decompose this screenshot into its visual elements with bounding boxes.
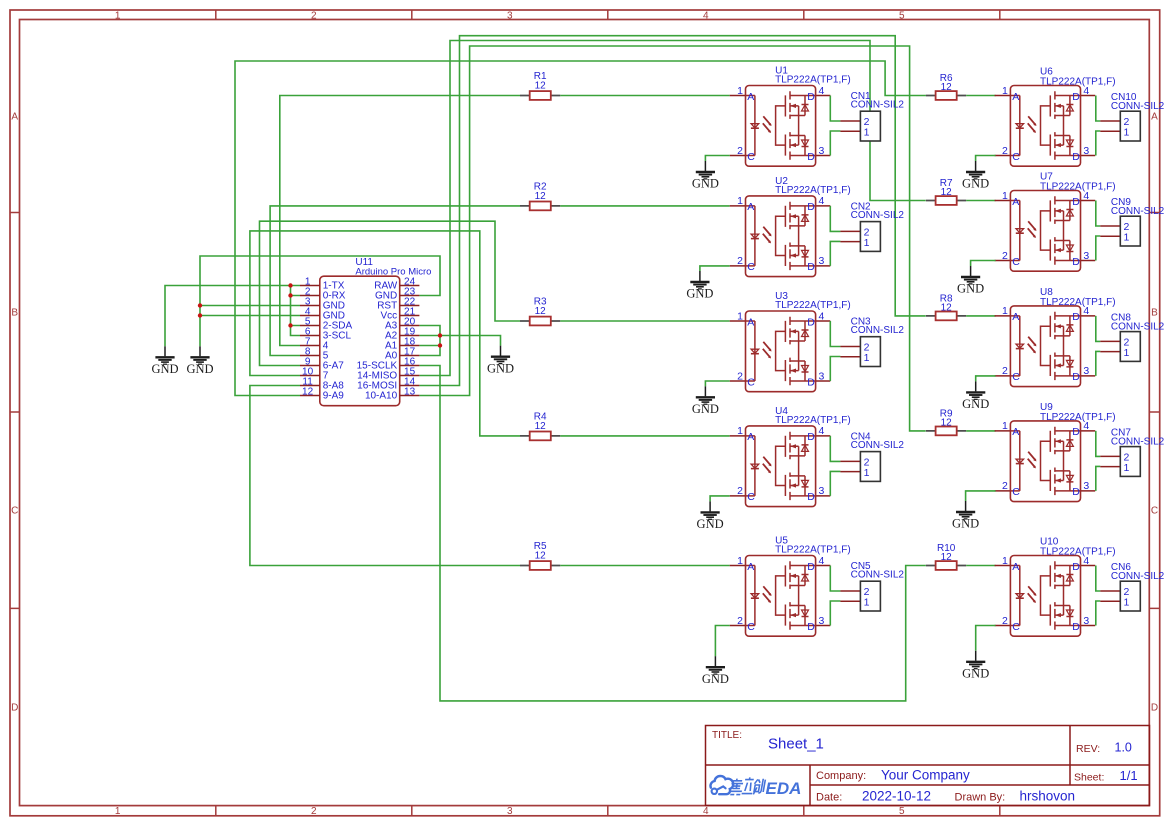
svg-text:D: D bbox=[1151, 703, 1158, 714]
wire U9 pin4 to CN7 pin2 bbox=[1096, 431, 1101, 457]
ground GND (U7) bbox=[957, 266, 984, 296]
opto-isolator U9 TLP222A bbox=[995, 402, 1116, 502]
svg-text:12: 12 bbox=[535, 81, 547, 92]
svg-text:CONN-SIL2: CONN-SIL2 bbox=[851, 570, 905, 581]
wire net pin7 to R1 bbox=[280, 96, 520, 346]
wire U4 pin2 to ground bbox=[710, 496, 730, 502]
svg-text:12: 12 bbox=[535, 306, 547, 317]
wire U7 pin3 to CN9 pin1 bbox=[1096, 236, 1101, 261]
svg-text:TLP222A(TP1,F): TLP222A(TP1,F) bbox=[775, 75, 851, 86]
svg-text:A: A bbox=[11, 112, 18, 123]
connector CN4 CONN-SIL2 bbox=[840, 431, 904, 481]
svg-text:CONN-SIL2: CONN-SIL2 bbox=[1111, 321, 1165, 332]
svg-text:1/1: 1/1 bbox=[1120, 768, 1138, 783]
opto-isolator U1 TLP222A bbox=[730, 66, 851, 167]
connector CN9 CONN-SIL2 bbox=[1100, 197, 1164, 246]
svg-text:10-A10: 10-A10 bbox=[365, 391, 398, 402]
svg-text:1: 1 bbox=[115, 10, 121, 21]
IC U11 Arduino Pro Micro bbox=[300, 257, 431, 406]
resistor R7 bbox=[926, 178, 966, 205]
wire U5 pin3 to CN5 pin1 bbox=[830, 601, 840, 626]
junction pin5 bbox=[288, 323, 292, 327]
svg-text:9-A9: 9-A9 bbox=[323, 391, 345, 402]
svg-text:2: 2 bbox=[311, 806, 317, 817]
connector CN2 CONN-SIL2 bbox=[840, 201, 904, 251]
svg-text:TLP222A(TP1,F): TLP222A(TP1,F) bbox=[775, 185, 851, 196]
svg-text:Company:: Company: bbox=[816, 770, 866, 782]
svg-text:13: 13 bbox=[404, 386, 416, 397]
wire net pin11 to R5 bbox=[250, 386, 520, 566]
svg-text:EDA: EDA bbox=[766, 779, 802, 798]
wire R1 to U1 pin1 bbox=[560, 95, 729, 97]
svg-text:B: B bbox=[1151, 308, 1158, 319]
ground GND (U2) bbox=[686, 271, 713, 301]
junction pin2 bbox=[288, 293, 292, 297]
wire R5 to U5 pin1 bbox=[560, 565, 729, 567]
wire U9 pin3 to CN7 pin1 bbox=[1096, 466, 1101, 491]
ground GND (U1) bbox=[692, 161, 719, 191]
resistor R9 bbox=[926, 408, 966, 435]
svg-text:TLP222A(TP1,F): TLP222A(TP1,F) bbox=[775, 545, 851, 556]
wire net pin15 MISO to R7 bbox=[419, 41, 925, 376]
svg-text:hrshovon: hrshovon bbox=[1020, 789, 1076, 804]
svg-text:C: C bbox=[11, 506, 18, 517]
junction pin3 bbox=[198, 303, 202, 307]
wire U1 pin2 to ground bbox=[705, 156, 729, 162]
ground GND (U3) bbox=[692, 386, 719, 416]
resistor R3 bbox=[520, 297, 560, 326]
junction pin1 bbox=[288, 283, 292, 287]
connector CN7 CONN-SIL2 bbox=[1100, 428, 1164, 477]
ground GND (U8) bbox=[962, 381, 989, 411]
svg-text:1: 1 bbox=[115, 806, 121, 817]
connector CN5 CONN-SIL2 bbox=[840, 561, 904, 611]
ground GND (Arduino left 1) bbox=[151, 346, 178, 376]
resistor R1 bbox=[520, 71, 560, 100]
svg-text:CONN-SIL2: CONN-SIL2 bbox=[1111, 206, 1165, 217]
svg-text:12: 12 bbox=[535, 191, 547, 202]
junction A1 bbox=[438, 343, 442, 347]
resistor R10 bbox=[926, 543, 966, 570]
wire U8 pin3 to CN8 pin1 bbox=[1096, 351, 1101, 376]
svg-text:Sheet_1: Sheet_1 bbox=[768, 736, 824, 753]
wire R7 to U7 pin1 bbox=[966, 200, 995, 202]
svg-text:TITLE:: TITLE: bbox=[712, 730, 742, 741]
wire net pin14 MOSI to R8 bbox=[419, 36, 925, 386]
wire U4 pin3 to CN4 pin1 bbox=[830, 471, 840, 496]
opto-isolator U10 TLP222A bbox=[995, 537, 1116, 637]
connector CN10 CONN-SIL2 bbox=[1100, 92, 1164, 141]
opto-isolator U3 TLP222A bbox=[730, 291, 851, 392]
wire net pin12 to R6 bbox=[235, 61, 926, 396]
svg-text:CONN-SIL2: CONN-SIL2 bbox=[851, 440, 905, 451]
wire U6 pin2 to ground bbox=[976, 156, 996, 162]
svg-text:A: A bbox=[1151, 112, 1158, 123]
svg-text:TLP222A(TP1,F): TLP222A(TP1,F) bbox=[775, 300, 851, 311]
svg-text:Your Company: Your Company bbox=[881, 767, 970, 782]
wire R8 to U8 pin1 bbox=[966, 315, 995, 317]
opto-isolator U2 TLP222A bbox=[730, 176, 851, 277]
wire R9 to U9 pin1 bbox=[966, 430, 995, 432]
wire U10 pin2 to ground bbox=[976, 626, 996, 651]
wire net pin8 to R2 bbox=[270, 206, 520, 356]
svg-text:12: 12 bbox=[302, 386, 314, 397]
wire U5 pin2 to ground bbox=[715, 626, 729, 657]
ground GND (Arduino left 2) bbox=[186, 346, 213, 376]
wire U10 pin3 to CN6 pin1 bbox=[1096, 601, 1101, 626]
resistor R4 bbox=[520, 411, 560, 440]
wire U9 pin2 to ground bbox=[966, 491, 996, 501]
resistor R5 bbox=[520, 541, 560, 570]
wire R10 to U10 pin1 bbox=[966, 565, 995, 567]
svg-text:TLP222A(TP1,F): TLP222A(TP1,F) bbox=[775, 415, 851, 426]
svg-text:REV:: REV: bbox=[1076, 743, 1100, 755]
opto-isolator U5 TLP222A bbox=[730, 536, 851, 637]
opto-isolator U7 TLP222A bbox=[995, 172, 1116, 272]
wire U6 pin4 to CN10 pin2 bbox=[1096, 96, 1101, 122]
title block bbox=[706, 726, 1150, 806]
connector CN3 CONN-SIL2 bbox=[840, 316, 904, 366]
svg-text:4: 4 bbox=[703, 806, 709, 817]
svg-text:CONN-SIL2: CONN-SIL2 bbox=[851, 100, 905, 111]
svg-text:CONN-SIL2: CONN-SIL2 bbox=[851, 325, 905, 336]
wire U5 pin4 to CN5 pin2 bbox=[830, 566, 840, 592]
svg-text:Sheet:: Sheet: bbox=[1074, 771, 1104, 783]
wire net pin13 A10 to R9 bbox=[419, 46, 925, 431]
svg-text:D: D bbox=[11, 703, 18, 714]
wire net GND pins 3,4 to pin 23 bbox=[200, 256, 440, 346]
wire net pins 1,2,5,6 to GND (left) bbox=[165, 286, 300, 347]
wire U7 pin2 to ground bbox=[971, 261, 996, 267]
resistor R8 bbox=[926, 293, 966, 320]
svg-text:Date:: Date: bbox=[816, 791, 842, 803]
JLC EDA logo bbox=[710, 776, 801, 798]
connector CN8 CONN-SIL2 bbox=[1100, 313, 1164, 362]
svg-text:CONN-SIL2: CONN-SIL2 bbox=[851, 210, 905, 221]
wire U2 pin3 to CN2 pin1 bbox=[830, 241, 840, 266]
ground GND (U10) bbox=[962, 651, 989, 681]
svg-text:2022-10-12: 2022-10-12 bbox=[862, 789, 931, 804]
svg-text:C: C bbox=[1151, 506, 1158, 517]
svg-text:5: 5 bbox=[899, 806, 905, 817]
svg-text:3: 3 bbox=[507, 10, 513, 21]
wire U4 pin4 to CN4 pin2 bbox=[830, 436, 840, 462]
wire net A0-A3 to GND bbox=[419, 326, 500, 356]
wire U1 pin4 to CN1 pin2 bbox=[830, 96, 840, 122]
wire U1 pin3 to CN1 pin1 bbox=[830, 131, 840, 156]
svg-text:Drawn By:: Drawn By: bbox=[955, 791, 1006, 803]
opto-isolator U6 TLP222A bbox=[995, 67, 1116, 167]
ground GND (U5) bbox=[702, 656, 729, 686]
wire R3 to U3 pin1 bbox=[560, 320, 729, 322]
wire U6 pin3 to CN10 pin1 bbox=[1096, 131, 1101, 156]
wire net pin16 SCLK to R10 bbox=[419, 366, 925, 701]
ground GND (analog pins) bbox=[487, 346, 514, 376]
svg-text:2: 2 bbox=[311, 10, 317, 21]
wire R6 to U6 pin1 bbox=[966, 95, 995, 97]
ground GND (U4) bbox=[697, 501, 724, 531]
wire R2 to U2 pin1 bbox=[560, 205, 729, 207]
wire net pin9 to R3 bbox=[260, 221, 521, 365]
svg-text:1.0: 1.0 bbox=[1115, 741, 1132, 755]
resistor R2 bbox=[520, 181, 560, 210]
ground GND (U9) bbox=[952, 501, 979, 531]
resistor R6 bbox=[926, 73, 966, 100]
wire U8 pin2 to ground bbox=[976, 376, 996, 382]
svg-text:CONN-SIL2: CONN-SIL2 bbox=[1111, 571, 1165, 582]
wire U2 pin2 to ground bbox=[700, 266, 730, 271]
wire net pin10 to R4 bbox=[250, 231, 520, 436]
svg-text:12: 12 bbox=[535, 551, 547, 562]
wire R4 to U4 pin1 bbox=[560, 435, 729, 437]
junction pin4 bbox=[198, 313, 202, 317]
junction A2 bbox=[438, 333, 442, 337]
svg-text:CONN-SIL2: CONN-SIL2 bbox=[1111, 436, 1165, 447]
svg-text:3: 3 bbox=[507, 806, 513, 817]
svg-text:12: 12 bbox=[535, 421, 547, 432]
connector CN1 CONN-SIL2 bbox=[840, 91, 904, 141]
svg-text:CONN-SIL2: CONN-SIL2 bbox=[1111, 101, 1165, 112]
wire U7 pin4 to CN9 pin2 bbox=[1096, 201, 1101, 227]
wire U3 pin2 to ground bbox=[705, 381, 729, 386]
wire U3 pin3 to CN3 pin1 bbox=[830, 357, 840, 382]
wire U8 pin4 to CN8 pin2 bbox=[1096, 316, 1101, 342]
wire U3 pin4 to CN3 pin2 bbox=[830, 321, 840, 347]
svg-text:B: B bbox=[11, 308, 18, 319]
wire U10 pin4 to CN6 pin2 bbox=[1096, 566, 1101, 592]
connector CN6 CONN-SIL2 bbox=[1100, 562, 1164, 611]
opto-isolator U8 TLP222A bbox=[995, 287, 1116, 387]
svg-text:4: 4 bbox=[703, 10, 709, 21]
opto-isolator U4 TLP222A bbox=[730, 406, 851, 507]
svg-text:5: 5 bbox=[899, 10, 905, 21]
wire U2 pin4 to CN2 pin2 bbox=[830, 206, 840, 232]
ground GND (U6) bbox=[962, 161, 989, 191]
